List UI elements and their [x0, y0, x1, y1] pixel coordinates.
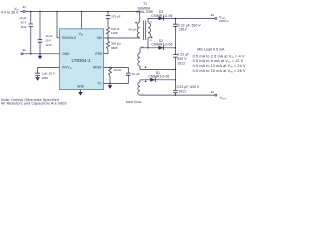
transformer T1 label: [136, 2, 153, 14]
svg-text:40 µH: 40 µH: [128, 27, 136, 31]
svg-text:TC: TC: [98, 82, 103, 86]
wire RREF: [104, 68, 129, 74]
transformer T1 pin numbers: [137, 21, 153, 95]
ground symbol input: [38, 54, 43, 60]
svg-text:E2: E2: [23, 48, 27, 52]
wire chip GND stem: [80, 90, 82, 92]
wire bottom rail VOUT-: [140, 94, 216, 96]
resistor R2 309k RFB: [107, 41, 110, 50]
diode D1 label: [148, 71, 169, 79]
junction dots: [30, 11, 176, 96]
wire secondary1 top to output rail: [148, 18, 216, 22]
terminal E4: [211, 90, 217, 96]
transformer T1 phase dots: [135, 22, 152, 82]
svg-text:1206: 1206: [111, 31, 118, 35]
resistor R3 10k RREF: [109, 68, 112, 77]
wire D1 row: [140, 80, 175, 82]
svg-text:1206: 1206: [41, 76, 48, 80]
capacitor C7 value label: [177, 53, 189, 66]
capacitor C4 INTVCC 1uF plates: [35, 73, 40, 75]
svg-text:1210: 1210: [46, 43, 52, 47]
svg-text:EN/UVLO: EN/UVLO: [62, 36, 77, 40]
wire S2 top stub: [139, 48, 141, 53]
transformer T1 secondary S1 winding: [148, 23, 151, 38]
wire TC: [104, 75, 129, 85]
svg-text:GND: GND: [62, 52, 70, 56]
svg-text:E3: E3: [211, 13, 215, 17]
transformer T1 primary winding: [137, 23, 140, 38]
svg-text:630 V: 630 V: [177, 57, 187, 61]
svg-text:RFB: RFB: [95, 52, 101, 56]
svg-text:SW: SW: [97, 36, 102, 40]
capacitor C6 value label: [178, 24, 201, 32]
svg-text:0.5 mA to 15 mA at VIN = 28 V: 0.5 mA to 15 mA at VIN = 28 V: [193, 69, 246, 74]
resistor R1 100ohm snubber: [107, 27, 110, 34]
wire RREF resistor stub: [109, 76, 111, 83]
wire input cap2 branch: [39, 12, 41, 54]
wire VIN top rail: [20, 12, 140, 23]
capacitor C6 0.22uF top plates: [173, 24, 178, 26]
node VOUT+ label: [219, 15, 229, 23]
svg-text:GND: GND: [77, 85, 85, 89]
svg-text:1812: 1812: [178, 89, 186, 93]
wire snubber column: [104, 12, 109, 54]
capacitor C7 0.22uF mid plates: [173, 55, 178, 58]
svg-text:10 kΩ: 10 kΩ: [114, 68, 123, 72]
svg-text:4 V to 28 V: 4 V to 28 V: [1, 11, 19, 15]
ground symbol chip GND: [78, 92, 83, 96]
terminal E3: [211, 13, 217, 19]
svg-text:270 pF: 270 pF: [111, 14, 121, 18]
capacitor C2 10uF plates: [38, 40, 43, 43]
capacitor C8 0.22uF bottom plates: [173, 90, 178, 92]
wire VIN pin branch: [81, 12, 83, 29]
capacitor C2 value label: [46, 34, 53, 47]
IC U1 LT8304-1 body: [60, 29, 104, 90]
wire S2 bottom row: [140, 66, 175, 69]
terminal E1: [23, 5, 27, 13]
svg-text:LT8304-1: LT8304-1: [72, 58, 91, 63]
svg-text:10 µF: 10 µF: [132, 72, 140, 76]
capacitor C1 10uF plates: [29, 24, 34, 27]
IC U1 pin labels: [62, 32, 102, 89]
svg-text:50 V: 50 V: [21, 21, 27, 25]
wire SW to primary: [104, 37, 141, 39]
terminal E2: [21, 48, 26, 55]
transformer T1 secondary S2 winding: [138, 53, 140, 66]
svg-text:E1: E1: [23, 5, 27, 9]
transformer T1 secondary S3 winding: [138, 82, 140, 95]
svg-text:RREF: RREF: [93, 66, 102, 70]
svg-text:0.5 mA to 2.5 mA at VIN = 4 V: 0.5 mA to 2.5 mA at VIN = 4 V: [193, 54, 245, 59]
svg-text:E4: E4: [211, 90, 215, 94]
capacitor C8 value label: [177, 85, 200, 93]
svg-text:Min Load 0.5 mA: Min Load 0.5 mA: [197, 48, 225, 52]
svg-text:50 V: 50 V: [46, 39, 52, 43]
ground symbol INTVCC: [35, 77, 40, 81]
wire secondary1 bottom: [147, 38, 149, 48]
svg-text:CMMR1U-06: CMMR1U-06: [151, 43, 172, 47]
svg-text:1000 V: 1000 V: [219, 19, 229, 23]
svg-text:All Resistors and Capacitors A: All Resistors and Capacitors Are 0603: [1, 102, 67, 106]
wire INTVCC cap: [38, 68, 60, 78]
svg-text:1210: 1210: [20, 25, 26, 29]
svg-text:CMMR1U-06: CMMR1U-06: [151, 14, 172, 18]
resistor R2 value label: [111, 42, 121, 51]
load current table: [193, 54, 246, 73]
diode D2: [159, 46, 164, 51]
svg-text:0.22 µF, 630 V: 0.22 µF, 630 V: [177, 85, 200, 89]
svg-text:0006-7299: 0006-7299: [136, 10, 153, 14]
svg-text:309 kΩ: 309 kΩ: [111, 42, 121, 46]
svg-text:CMMR1U-06: CMMR1U-06: [148, 74, 169, 78]
ground symbol TC: [108, 85, 113, 89]
svg-text:10 µF: 10 µF: [46, 34, 53, 38]
diode D1: [150, 78, 155, 83]
svg-text:0.22 µF: 0.22 µF: [177, 53, 189, 57]
svg-text:0.5 mA to 13 mA at VIN = 24 V: 0.5 mA to 13 mA at VIN = 24 V: [193, 64, 246, 69]
wire D2 row: [140, 47, 175, 49]
capacitor C3 270pF plates: [106, 16, 111, 19]
note text: [1, 98, 67, 106]
svg-text:1812: 1812: [177, 61, 185, 65]
svg-text:0805: 0805: [111, 46, 118, 50]
svg-text:83041 TA01a: 83041 TA01a: [126, 100, 142, 104]
capacitor C1 value label: [19, 16, 26, 29]
resistor R1 value label: [111, 27, 120, 35]
diode D3: [159, 16, 164, 21]
capacitor C5 TC 10uF plates: [126, 73, 131, 75]
wire input cap1 branch: [30, 12, 32, 54]
svg-text:1812: 1812: [179, 27, 187, 31]
svg-text:1 µF, 25 V: 1 µF, 25 V: [41, 72, 55, 76]
wire EN/UVLO branch: [57, 12, 60, 38]
transformer T1 core: [144, 21, 146, 41]
svg-text:10 µF: 10 µF: [19, 16, 26, 20]
wire output cap column: [174, 18, 176, 95]
diode D3 label: [151, 10, 172, 18]
capacitor C4 value label: [41, 72, 55, 80]
wire GND rail E2: [21, 53, 60, 55]
diode D2 label: [151, 39, 172, 47]
